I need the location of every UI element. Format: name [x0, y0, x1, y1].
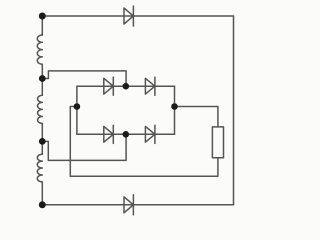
diode D3 cathode bar — [154, 77, 156, 95]
wire tap C to bridge bottom-middle node — [42, 134, 126, 160]
diode D4 bridge bottom-left triangle — [104, 126, 114, 142]
node D junction dot bottom-left — [39, 201, 46, 208]
wire bridge left node to resistor bottom — [70, 107, 218, 177]
node B tap junction dot — [39, 75, 46, 82]
inductor L1 winding section 2 — [38, 95, 43, 123]
diode D4 cathode bar — [112, 125, 114, 143]
diode D2 bridge top-left triangle — [104, 78, 114, 94]
wire bridge left side — [76, 86, 78, 134]
node F bridge right junction dot — [171, 103, 178, 110]
wire bridge right side — [174, 86, 176, 134]
diode D1 top wire triangle — [124, 8, 133, 24]
wire L1 section2 to tap C — [41, 124, 43, 155]
wire right edge — [233, 16, 235, 205]
wire bridge right node to resistor top — [175, 107, 218, 127]
diode D2 cathode bar — [112, 77, 114, 95]
node E bridge left junction dot — [74, 103, 81, 110]
wire L1 section1 to tap B — [41, 64, 43, 95]
inductor L1 winding section 1 — [37, 35, 42, 64]
diode D6 bottom wire triangle — [124, 197, 133, 213]
diode D5 bridge bottom-right triangle — [145, 126, 155, 142]
diode D1 cathode bar — [132, 6, 134, 26]
wire tap B to bridge top-middle node — [42, 71, 126, 86]
inductor L1 winding section 3 — [37, 154, 42, 182]
node C tap junction dot — [39, 138, 46, 145]
node H bridge bottom-middle junction dot — [123, 131, 130, 138]
wire top (node A to top-right corner) — [42, 15, 233, 17]
resistor R1 body — [212, 127, 223, 158]
diode D5 cathode bar — [154, 125, 156, 143]
wire L1 section3 to node D — [41, 182, 43, 205]
node G bridge top-middle junction dot — [123, 83, 130, 90]
wire bridge top rail — [77, 85, 175, 87]
diode D3 bridge top-right triangle — [145, 78, 155, 94]
wire bottom — [42, 204, 233, 206]
wire bridge bottom rail — [77, 133, 175, 135]
inductor L1 top lead — [41, 16, 43, 35]
node A junction dot top-left — [39, 13, 46, 20]
diode D6 cathode bar — [132, 195, 134, 215]
